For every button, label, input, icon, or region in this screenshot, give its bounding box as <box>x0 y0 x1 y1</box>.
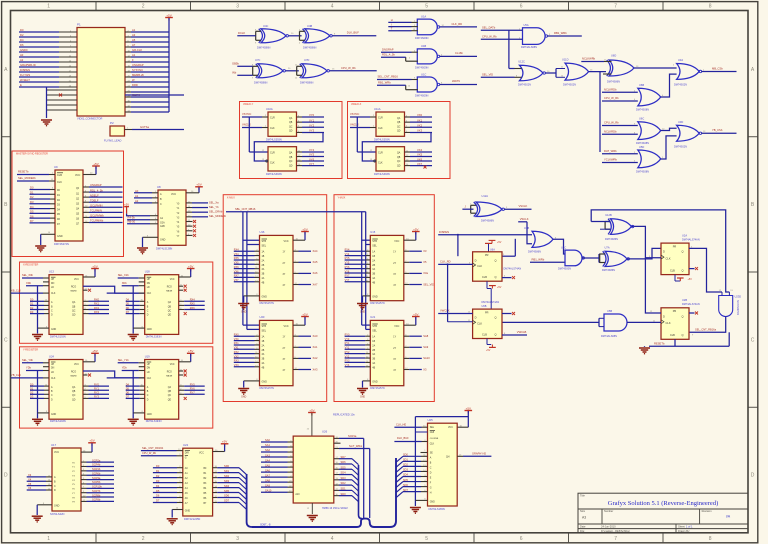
wire U16 GND <box>244 294 260 302</box>
wire GB5b input <box>232 62 253 67</box>
svg-text:RY7: RY7 <box>345 275 350 278</box>
svg-text:VY5: VY5 <box>345 262 350 265</box>
svg-text:D2: D2 <box>20 33 24 37</box>
svg-text:3B: 3B <box>372 274 375 276</box>
svg-text:DAT_WRb: DAT_WRb <box>604 149 617 153</box>
svg-text:P2: P2 <box>110 121 114 125</box>
wire CPU_W_Rb into U6B <box>602 96 638 101</box>
svg-text:X3: X3 <box>28 473 32 477</box>
svg-text:RY0: RY0 <box>345 334 350 337</box>
svg-text:A1: A1 <box>132 28 136 32</box>
wires U24 control inputs <box>11 358 49 378</box>
xor gate U6D <box>607 54 634 84</box>
svg-text:1Y: 1Y <box>393 337 396 339</box>
svg-text:GB5b: GB5b <box>232 62 239 66</box>
svg-text:DM74S86N: DM74S86N <box>257 45 271 49</box>
wire U25 CLB tie <box>415 431 427 433</box>
svg-text:A3: A3 <box>132 33 136 37</box>
svg-text:QD: QD <box>168 315 172 317</box>
svg-text:D: D <box>475 316 477 320</box>
wire RDL_4_5b input <box>381 52 411 59</box>
wire RB1_WRb input <box>377 81 411 88</box>
and gate U23D rotated <box>719 290 742 317</box>
or gate U5D <box>636 145 661 174</box>
svg-text:D: D <box>475 258 477 262</box>
group box X-REGISTER <box>20 262 213 343</box>
counter U24 <box>49 354 83 423</box>
svg-text:U16: U16 <box>260 230 265 234</box>
svg-text:VCC: VCC <box>199 452 204 454</box>
wires P1 left data bus <box>19 28 77 87</box>
wire CPU_W_Rb into U22 <box>141 451 183 456</box>
svg-text:SD5: SD5 <box>341 465 347 469</box>
svg-text:VIDEO-Y: VIDEO-Y <box>243 103 254 106</box>
svg-text:RX5: RX5 <box>190 302 196 306</box>
svg-text:VY6: VY6 <box>345 270 350 273</box>
wires U19 control inputs <box>107 358 145 378</box>
svg-text:U25: U25 <box>428 418 434 422</box>
svg-text:INb: INb <box>232 71 237 75</box>
svg-text:VWCLK: VWCLK <box>440 309 450 313</box>
svg-text:U26: U26 <box>322 429 328 433</box>
svg-text:GND: GND <box>262 295 268 298</box>
wire U12C out to U11D <box>546 67 566 78</box>
wire U25 top rail <box>415 417 468 506</box>
svg-text:VY0: VY0 <box>345 338 350 341</box>
svg-text:5: 5 <box>425 536 428 542</box>
svg-text:QA: QA <box>168 301 172 304</box>
svg-text:2: 2 <box>142 4 145 10</box>
xor gate U4B <box>299 24 332 50</box>
svg-text:CLK: CLK <box>378 127 383 130</box>
wire U24 gnd rail vertical <box>37 371 39 419</box>
wire VWCLB output <box>502 330 527 335</box>
svg-text:CLB: CLB <box>430 432 435 434</box>
svg-text:QA: QA <box>397 152 401 155</box>
svg-text:GND: GND <box>430 501 435 503</box>
wire YCLKWRb input <box>602 158 638 163</box>
power +5V U15 <box>404 227 420 240</box>
wire U7C out to U7D <box>286 68 299 71</box>
svg-text:2B: 2B <box>262 350 265 352</box>
svg-text:C: C <box>160 203 162 206</box>
svg-text:QC: QC <box>72 310 76 312</box>
svg-text:DM74S157N: DM74S157N <box>260 302 275 305</box>
svg-text:SEL_CNT_RB16: SEL_CNT_RB16 <box>378 75 399 79</box>
svg-text:RX2: RX2 <box>94 306 100 310</box>
svg-text:GND: GND <box>51 414 56 416</box>
svg-text:G: G <box>430 488 432 490</box>
xor gate U12B <box>605 213 634 241</box>
wire U12A inputs <box>462 203 473 215</box>
svg-text:+5V: +5V <box>688 278 693 281</box>
svg-text:CPU_W_Rb: CPU_W_Rb <box>482 34 497 38</box>
svg-text:D5: D5 <box>30 210 34 214</box>
wire U22 GND <box>172 508 183 518</box>
svg-text:3Y: 3Y <box>283 274 286 276</box>
wire VNCLK <box>350 123 376 128</box>
svg-text:SD3: SD3 <box>403 469 408 472</box>
wire U6D out to U3A <box>634 65 677 68</box>
svg-text:SA5: SA5 <box>265 463 270 467</box>
svg-text:UNGRAP: UNGRAP <box>90 183 102 187</box>
svg-text:SEL_MODE0b: SEL_MODE0b <box>209 214 227 218</box>
svg-text:RX1: RX1 <box>94 302 100 306</box>
svg-text:VY5: VY5 <box>309 153 315 157</box>
svg-text:QB: QB <box>72 306 76 308</box>
svg-text:QB: QB <box>168 391 172 393</box>
wire VNCLK <box>242 123 268 128</box>
svg-text:3B: 3B <box>372 359 375 361</box>
wire RESETb <box>17 170 55 175</box>
svg-text:RX6: RX6 <box>234 266 239 269</box>
svg-text:D5: D5 <box>156 489 160 493</box>
svg-text:X5: X5 <box>28 482 32 486</box>
svg-text:DIR: DIR <box>185 452 189 454</box>
svg-text:RY7: RY7 <box>190 391 196 395</box>
svg-text:SD2: SD2 <box>341 481 347 485</box>
svg-text:GND: GND <box>241 397 246 399</box>
nor gate U3A <box>674 58 702 87</box>
wires U13 control inputs <box>11 273 49 293</box>
wire CPU_W_Rb into U5A <box>481 34 523 39</box>
svg-text:XA7: XA7 <box>313 282 318 286</box>
svg-text:DM74LS193N: DM74LS193N <box>50 335 66 338</box>
svg-text:SEL_Y1b: SEL_Y1b <box>118 358 130 362</box>
svg-text:VY7: VY7 <box>345 279 350 282</box>
svg-text:DM74LS193N: DM74LS193N <box>146 420 162 423</box>
wire U2B Q no-connect <box>689 312 698 315</box>
svg-text:1B: 1B <box>262 256 265 258</box>
shift register U25 <box>428 418 458 511</box>
svg-text:SD2: SD2 <box>403 464 408 467</box>
wires U21 outputs <box>404 334 430 371</box>
svg-text:CPU_W_Rb: CPU_W_Rb <box>341 66 356 70</box>
svg-text:U6D: U6D <box>611 54 616 58</box>
svg-text:C: C <box>751 337 755 343</box>
svg-text:DM74LS393N: DM74LS393N <box>266 173 282 176</box>
wire VSCLK output <box>504 204 532 209</box>
svg-text:SE: SE <box>430 452 434 454</box>
nand gate U5A <box>521 23 548 49</box>
wires P1 right side <box>125 28 184 112</box>
wire RB1_WRb into nand <box>530 258 565 263</box>
bus U26 data vertical <box>359 465 363 519</box>
svg-text:SEL_CNT_RD16b: SEL_CNT_RD16b <box>142 446 164 450</box>
wire U2A Qb no-connect <box>689 267 698 270</box>
svg-text:SA9: SA9 <box>423 345 428 349</box>
svg-text:SD2: SD2 <box>224 474 230 478</box>
svg-text:+5V: +5V <box>302 312 307 316</box>
wire DLK_BUF <box>332 31 376 36</box>
svg-text:QA: QA <box>168 386 172 389</box>
wire NCLKRDb into U6B <box>602 88 638 93</box>
wire CLK_HE into U25 <box>394 422 427 427</box>
counter U19 <box>145 354 179 423</box>
multiplexer U16 <box>260 230 294 305</box>
wires U21 inputs <box>345 334 371 368</box>
wire U21 GND <box>363 379 371 387</box>
svg-text:U11A: U11A <box>374 107 381 111</box>
bus SDBT vertical from U22 <box>247 474 252 527</box>
wire SEL_DATb <box>481 25 523 30</box>
svg-text:VX4: VX4 <box>234 253 239 256</box>
svg-text:U24: U24 <box>49 354 54 358</box>
nand gate U1D <box>558 245 584 270</box>
wire U18 gnd rail vertical <box>132 286 134 334</box>
svg-text:XA5: XA5 <box>313 260 318 264</box>
svg-text:SEL_DRAb: SEL_DRAb <box>209 210 223 214</box>
svg-text:CLR: CLR <box>378 151 383 154</box>
flip-flop U6B <box>473 301 502 338</box>
no-connect U18 carry <box>179 285 187 292</box>
svg-text:GRAPHY-ID: GRAPHY-ID <box>472 452 486 456</box>
wires U19 outputs <box>179 382 205 394</box>
svg-text:U2A: U2A <box>682 234 687 238</box>
wire DLK_BUF into U25 <box>394 436 427 442</box>
title block <box>578 493 748 533</box>
svg-text:DM74ALS08N: DM74ALS08N <box>521 46 537 49</box>
wire CPU_W_Rb into U6C <box>602 121 638 126</box>
svg-text:U7A: U7A <box>605 245 610 249</box>
svg-text:U5B: U5B <box>607 309 612 313</box>
svg-text:D6: D6 <box>126 391 130 395</box>
svg-text:QD: QD <box>289 131 293 133</box>
wire U26 pin20 stub <box>334 442 341 444</box>
power +5V U8 <box>186 183 203 193</box>
svg-text:RB1_WRb: RB1_WRb <box>378 81 391 85</box>
svg-text:SD5: SD5 <box>403 479 408 482</box>
svg-text:D0: D0 <box>30 298 34 302</box>
wires U17 outputs <box>81 458 114 502</box>
svg-text:+5V: +5V <box>486 349 491 352</box>
svg-text:D7: D7 <box>30 219 34 223</box>
svg-text:RESETb: RESETb <box>18 170 29 174</box>
svg-text:D3: D3 <box>156 479 160 483</box>
svg-text:SA0: SA0 <box>265 438 270 442</box>
svg-text:SA7: SA7 <box>265 473 270 477</box>
ground RESET tie <box>639 346 650 354</box>
wires U1A inputs <box>388 18 416 31</box>
svg-text:SA9: SA9 <box>265 483 270 487</box>
svg-text:CLK_HE: CLK_HE <box>396 422 406 426</box>
wire vertical to U10B CLR <box>249 117 268 152</box>
svg-text:1: 1 <box>47 536 50 542</box>
svg-text:2A: 2A <box>372 344 375 347</box>
svg-text:YCLKWRb: YCLKWRb <box>604 158 617 162</box>
wires U15 outputs <box>404 249 434 286</box>
svg-text:Y-REGISTER: Y-REGISTER <box>23 349 38 352</box>
svg-text:D4: D4 <box>126 382 130 386</box>
svg-text:SD0: SD0 <box>403 454 408 457</box>
svg-text:VX2: VX2 <box>234 355 239 358</box>
wires U10B outputs <box>297 148 325 166</box>
svg-text:6: 6 <box>520 536 523 542</box>
register U10A <box>266 107 297 141</box>
svg-text:D0: D0 <box>20 28 24 32</box>
power +5V tie U2A CLR <box>675 275 692 282</box>
wires U25 parallel inputs SD0-SD7 <box>396 454 428 498</box>
svg-text:SN74LS42N: SN74LS42N <box>50 512 65 516</box>
and gate U1B <box>406 44 440 69</box>
svg-text:LD: LD <box>51 372 54 374</box>
svg-text:D: D <box>4 473 8 479</box>
no-connect U18 QD <box>184 312 187 315</box>
svg-text:SEL_VID: SEL_VID <box>482 73 493 77</box>
svg-text:1A: 1A <box>262 251 265 254</box>
svg-text:+5V: +5V <box>188 264 193 268</box>
svg-text:RX6: RX6 <box>190 306 196 310</box>
xor gate U7A <box>600 245 630 272</box>
svg-text:U4B: U4B <box>307 24 312 28</box>
svg-text:XB_CLK: XB_CLK <box>11 288 21 292</box>
wire SEL_VID input <box>481 73 518 78</box>
svg-text:UP: UP <box>147 364 151 366</box>
svg-text:DM74LS393N: DM74LS393N <box>266 138 282 141</box>
power +5V U8 enable G1 <box>124 203 158 216</box>
ground U22 <box>167 518 178 520</box>
svg-text:3A: 3A <box>372 268 375 271</box>
svg-text:U9: U9 <box>54 165 58 169</box>
and gate U5B <box>601 309 627 338</box>
group box MASTER-SYNC-REGISTER <box>12 151 124 257</box>
svg-text:DM74S08N: DM74S08N <box>636 109 649 112</box>
svg-text:DISPEN: DISPEN <box>439 230 449 234</box>
svg-text:D5: D5 <box>126 387 130 391</box>
wires U15 inputs <box>345 249 371 283</box>
wire U19 GND pin <box>133 411 145 413</box>
svg-text:DM74ALS74AN: DM74ALS74AN <box>682 303 700 306</box>
wires U22 B-side SD0-SD7 to bus <box>213 464 247 510</box>
svg-text:Title: Title <box>580 494 585 498</box>
decoder U8 <box>156 185 186 251</box>
svg-text:SEL_X0b: SEL_X0b <box>22 273 34 277</box>
multiplexer U15 <box>370 230 404 305</box>
svg-text:8: 8 <box>709 4 712 10</box>
svg-text:D7: D7 <box>156 499 160 503</box>
svg-text:4: 4 <box>331 4 334 10</box>
svg-text:SD4: SD4 <box>341 471 347 475</box>
svg-text:GND: GND <box>262 380 268 383</box>
svg-text:SEL: SEL <box>372 329 377 332</box>
svg-text:RCO: RCO <box>167 371 172 373</box>
svg-text:DNGRAP: DNGRAP <box>382 47 394 51</box>
svg-text:XA2: XA2 <box>313 356 318 360</box>
svg-text:+5V: +5V <box>309 408 314 412</box>
svg-text:D: D <box>663 314 665 318</box>
svg-text:H: H <box>391 18 393 22</box>
svg-text:SCR6b: SCR6b <box>92 471 101 475</box>
or gate U6B <box>636 83 661 112</box>
svg-text:SN74S09PCN: SN74S09PCN <box>736 300 739 316</box>
wires U9 data inputs D0-D7 <box>30 186 56 223</box>
svg-text:SCR7b: SCR7b <box>92 489 101 493</box>
wire SBL_CNT_RB16 cross net <box>226 207 366 212</box>
wire RESETb net <box>649 332 729 346</box>
svg-text:7: 7 <box>614 4 617 10</box>
svg-text:D0: D0 <box>156 464 160 468</box>
svg-text:3: 3 <box>236 536 239 542</box>
svg-text:D7: D7 <box>126 310 130 314</box>
svg-text:D2: D2 <box>30 195 34 199</box>
svg-text:QC: QC <box>168 310 172 312</box>
svg-text:+5V: +5V <box>466 406 471 410</box>
svg-text:6: 6 <box>520 4 523 10</box>
svg-text:RY1: RY1 <box>94 387 100 391</box>
svg-text:DM74S09N: DM74S09N <box>415 36 429 40</box>
svg-text:VX7: VX7 <box>417 162 423 166</box>
svg-text:DM74LS138N: DM74LS138N <box>156 247 172 251</box>
svg-text:Y-MUX: Y-MUX <box>338 196 346 199</box>
svg-text:DM74S09N: DM74S09N <box>415 94 429 98</box>
svg-text:1B: 1B <box>372 256 375 258</box>
nor gate U3D <box>674 120 702 149</box>
svg-text:A7: A7 <box>132 43 136 47</box>
svg-text:X4: X4 <box>28 477 32 481</box>
svg-text:DM74S02N: DM74S02N <box>674 145 687 148</box>
svg-text:DM74LS193N: DM74LS193N <box>146 335 162 338</box>
svg-text:3: 3 <box>236 4 239 10</box>
svg-text:SCR5b: SCR5b <box>92 480 101 484</box>
svg-text:QC: QC <box>397 161 401 163</box>
svg-text:4A: 4A <box>372 362 375 365</box>
svg-text:Sheet: Sheet <box>678 524 685 528</box>
svg-text:Size: Size <box>580 509 586 513</box>
svg-text:VSCLK: VSCLK <box>519 204 528 208</box>
svg-text:CLK: CLK <box>51 293 56 295</box>
svg-text:DM74S157N: DM74S157N <box>260 387 275 390</box>
svg-text:STB: STB <box>372 325 377 328</box>
wire U8 GND <box>143 235 159 247</box>
svg-text:SD6: SD6 <box>403 484 408 487</box>
svg-text:DM74S00N: DM74S00N <box>558 268 571 271</box>
svg-text:U8: U8 <box>157 185 161 189</box>
wire U13 GND pin <box>38 326 50 328</box>
svg-text:U10A: U10A <box>266 107 273 111</box>
svg-text:CLK: CLK <box>270 127 275 130</box>
wire VSYNC <box>350 112 376 117</box>
svg-text:RCO: RCO <box>167 287 172 289</box>
power +5V U26 <box>307 408 316 436</box>
wires U10A outputs <box>297 113 325 133</box>
wires U18 data inputs <box>126 298 145 314</box>
svg-text:CLB: CLB <box>482 276 487 279</box>
svg-text:SD7: SD7 <box>224 499 230 503</box>
wire U15 GND <box>363 294 371 302</box>
svg-text:D4: D4 <box>156 484 160 488</box>
svg-text:D2: D2 <box>30 306 34 310</box>
svg-text:D0: D0 <box>30 382 34 386</box>
wire RB1_WRb output <box>548 31 582 36</box>
svg-text:U21: U21 <box>370 315 375 319</box>
wire feedback loop top <box>591 210 729 292</box>
no-connect U13 borrow <box>83 289 91 292</box>
svg-text:QA: QA <box>289 152 293 155</box>
svg-text:MA/MI: MA/MI <box>166 374 172 377</box>
svg-text:+5V: +5V <box>222 440 227 444</box>
svg-text:XDb: XDb <box>26 281 32 285</box>
svg-text:U23D: U23D <box>735 295 742 299</box>
svg-text:GND: GND <box>241 312 246 314</box>
svg-text:D4: D4 <box>126 298 130 302</box>
svg-text:LD: LD <box>147 287 150 289</box>
svg-text:SCR2a: SCR2a <box>92 458 101 462</box>
wire GUTS net <box>125 125 185 129</box>
svg-text:4Y: 4Y <box>393 370 396 372</box>
svg-text:RDL_4_5b: RDL_4_5b <box>382 52 395 56</box>
wire junction down to U12C <box>508 30 510 68</box>
svg-text:1A: 1A <box>372 251 375 254</box>
